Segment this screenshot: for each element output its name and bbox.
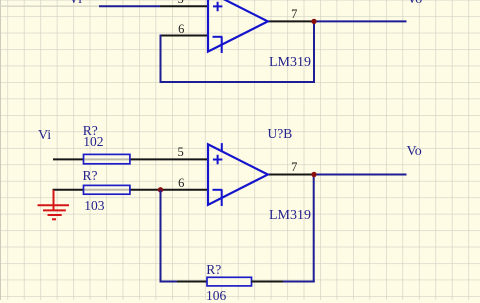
- wire feedback right vertical U?A: [313, 21, 315, 83]
- wire ground/R103 line to pin 6 (U?B): [53, 189, 209, 191]
- op-amp U?A plus symbol: [213, 2, 222, 12]
- op-amp U?B top power stub: [221, 143, 223, 151]
- designator U?B: [268, 127, 293, 141]
- junction output node U?A: [311, 19, 316, 24]
- screenshot left border: [0, 0, 1, 300]
- value 106: [206, 289, 226, 303]
- pin number 5 (U?B): [178, 146, 184, 159]
- wire feedback left vertical U?B: [160, 190, 162, 282]
- resistor R106 body: [207, 277, 252, 286]
- wire feedback right vertical U?B: [313, 175, 315, 283]
- op-amp U?A bottom power stub: [221, 37, 223, 53]
- pin number 7 (U?B): [291, 161, 297, 174]
- pin number 7 (U?A): [291, 8, 297, 21]
- designator R? of R106: [206, 263, 221, 277]
- ground symbol: [38, 190, 70, 220]
- op-amp U?B bottom power stub: [221, 190, 223, 206]
- pin number 5 (U?A, clipped): [178, 0, 184, 5]
- op-amp U?B plus symbol: [213, 155, 223, 165]
- wire output to Vo (U?A): [314, 20, 407, 22]
- wire pin 7 output lead of U?B: [267, 174, 314, 176]
- wire feedback bottom horizontal U?A: [160, 81, 316, 83]
- junction output node U?B: [311, 172, 316, 177]
- resistor R102 body: [84, 154, 130, 163]
- op-amp U?B minus symbol: [213, 189, 223, 191]
- wire pin 5 lead of U?A: [160, 5, 208, 7]
- op-amp U?A minus symbol: [213, 36, 223, 38]
- op-amp U?B triangle: [208, 144, 268, 205]
- value 102: [83, 135, 103, 149]
- wire pin lead left of R106: [177, 281, 207, 283]
- wire feedback bottom-left segment U?B: [160, 281, 178, 283]
- net label Vo (top, clipped): [407, 0, 422, 7]
- value 103: [84, 199, 104, 213]
- wire Vi input line to pin 5 (U?B): [53, 158, 208, 160]
- wire feedback left vertical U?A: [160, 35, 162, 83]
- part type label LM319 (U?A): [269, 56, 311, 70]
- junction node at R103 / feedback: [158, 187, 163, 192]
- pin number 6 (U?A): [178, 23, 184, 36]
- wire pin 6 lead of U?A: [161, 35, 209, 37]
- net label Vo (bottom): [407, 145, 422, 159]
- wire Vi to U?A pin5 (net segment): [99, 5, 160, 7]
- net label Vi (top, clipped): [69, 0, 82, 7]
- wire output to Vo (U?B): [314, 174, 407, 176]
- wire pin lead right of R106: [252, 281, 284, 283]
- part type label LM319 (U?B): [269, 209, 311, 223]
- net label Vi (bottom): [38, 129, 51, 143]
- wire feedback bottom-right segment U?B: [283, 281, 315, 283]
- wire pin 7 output lead of U?A: [267, 20, 314, 22]
- designator R? of R103: [83, 169, 98, 183]
- op-amp U?A triangle: [208, 0, 268, 52]
- pin number 6 (U?B): [178, 177, 184, 190]
- resistor R103 body: [84, 185, 130, 194]
- faint hidden wire stub at top-left: [0, 5, 99, 7]
- designator R? of R102: [83, 124, 98, 138]
